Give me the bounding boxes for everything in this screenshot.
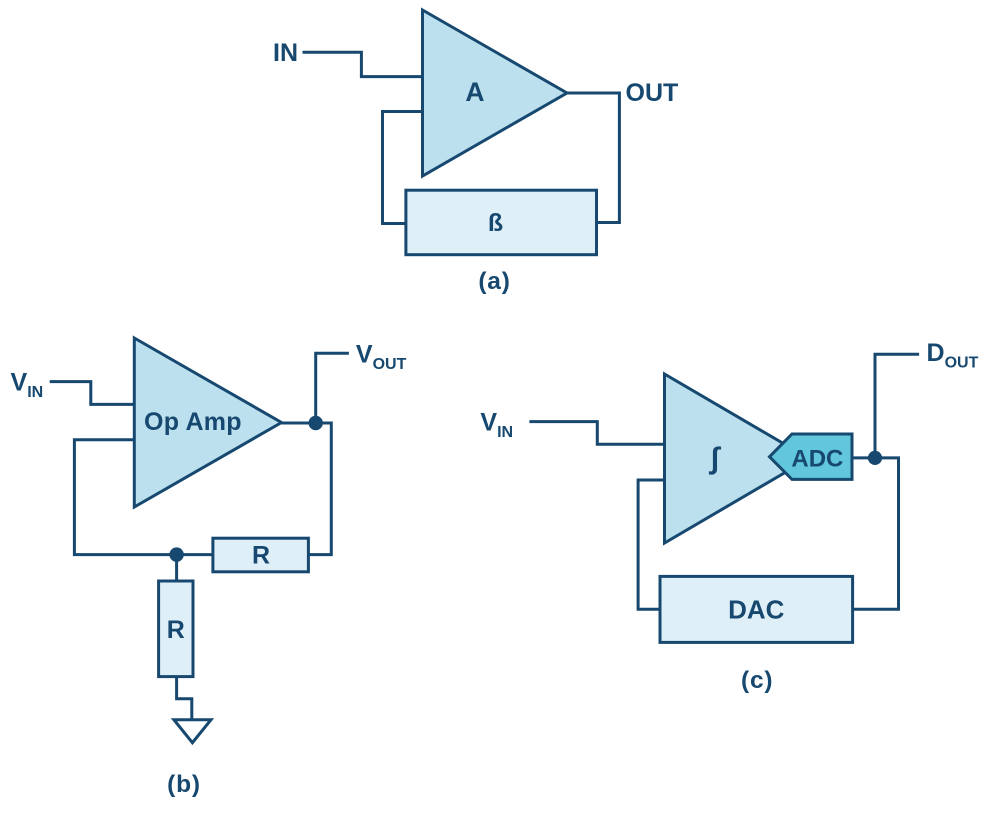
- wire IN lead (a): [303, 52, 423, 76]
- svg-text:(a): (a): [478, 268, 510, 295]
- svg-text:A: A: [465, 77, 484, 107]
- node junction dot (b): [169, 547, 183, 561]
- feedback block beta (a): [406, 190, 597, 255]
- resistor R vertical (b): [159, 581, 193, 677]
- wire VOUT lead (b): [316, 353, 349, 423]
- svg-text:(b): (b): [167, 771, 201, 798]
- wire DOUT lead (c): [875, 354, 919, 458]
- svg-text:R: R: [167, 616, 185, 644]
- op-amp triangle (b): [134, 338, 281, 507]
- wire DAC to node (c): [853, 458, 899, 609]
- wire VIN lead (b): [50, 382, 133, 405]
- ADC pentagon tag: [770, 434, 853, 479]
- node output dot (b): [309, 416, 323, 430]
- ground symbol (b): [174, 720, 211, 743]
- wire node to R horizontal (b): [177, 553, 213, 556]
- wire R to ground step (b): [177, 555, 192, 720]
- wire VIN lead (c): [529, 422, 663, 445]
- svg-text:ß: ß: [488, 209, 503, 237]
- wire feedback left (c): [638, 480, 664, 609]
- DAC block (c): [660, 576, 853, 642]
- svg-text:DAC: DAC: [728, 594, 785, 624]
- node output dot (c): [868, 451, 882, 465]
- wire feedback left (b): [74, 440, 176, 555]
- amplifier A triangle: [423, 10, 568, 176]
- integrator triangle (c): [665, 374, 810, 543]
- svg-text:IN: IN: [273, 39, 298, 67]
- wire output node to R (b): [282, 423, 332, 555]
- wire feedback left (a): [383, 112, 423, 224]
- svg-text:R: R: [252, 542, 270, 570]
- svg-text:OUT: OUT: [626, 79, 679, 107]
- svg-text:(c): (c): [741, 667, 773, 694]
- svg-text:ADC: ADC: [791, 446, 843, 473]
- wire ADC to node (c): [852, 456, 875, 459]
- resistor R horizontal (b): [213, 538, 309, 572]
- svg-text:Op Amp: Op Amp: [144, 408, 242, 436]
- wire OUT right (a): [567, 93, 619, 223]
